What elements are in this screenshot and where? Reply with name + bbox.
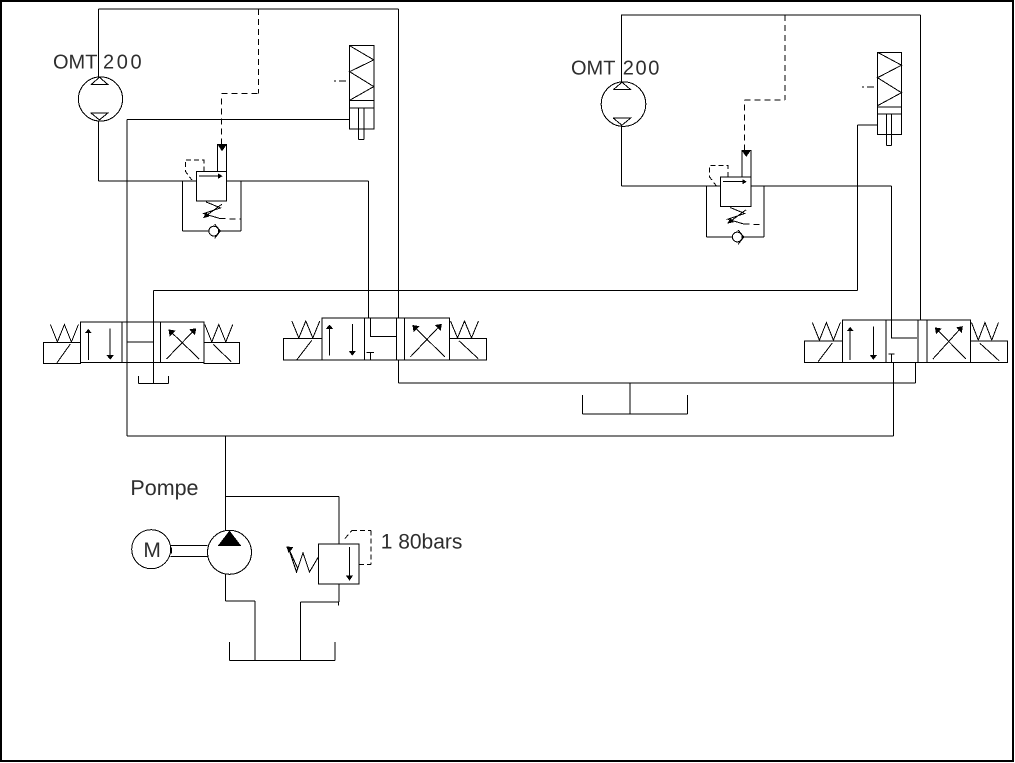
svg-text:1 80bars: 1 80bars xyxy=(381,531,463,554)
svg-text:200: 200 xyxy=(103,51,144,73)
svg-text:M: M xyxy=(143,539,161,562)
svg-text:200: 200 xyxy=(623,58,661,80)
svg-text:OMT: OMT xyxy=(571,58,615,80)
svg-text:Pompe: Pompe xyxy=(130,476,198,500)
svg-text:OMT: OMT xyxy=(53,51,97,73)
